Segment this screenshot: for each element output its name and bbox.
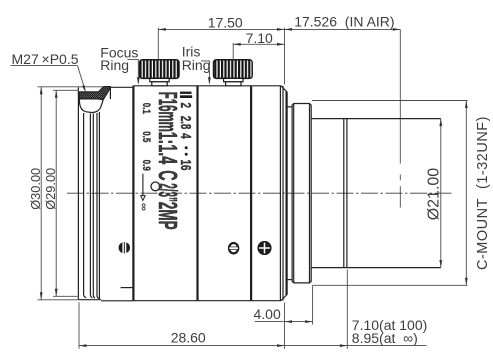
svg-text:Ring: Ring — [182, 57, 211, 73]
svg-text:M27 ×P0.5: M27 ×P0.5 — [12, 51, 79, 67]
svg-text:C-MOUNT (1-32UNF): C-MOUNT (1-32UNF) — [475, 116, 491, 270]
svg-text:2MP: 2MP — [153, 202, 182, 230]
svg-text:C: C — [153, 170, 182, 180]
svg-text:2/3”: 2/3” — [153, 183, 182, 202]
svg-text:Ø21.00: Ø21.00 — [425, 168, 442, 221]
svg-text:Ring: Ring — [100, 57, 129, 73]
svg-text:0.5: 0.5 — [140, 131, 153, 143]
svg-text:0.9: 0.9 — [140, 160, 153, 172]
svg-text:1:1.4: 1:1.4 — [153, 132, 182, 165]
svg-text:4: 4 — [177, 133, 193, 139]
svg-text:16: 16 — [177, 160, 193, 171]
svg-text:2: 2 — [177, 103, 193, 109]
svg-text:∞: ∞ — [138, 203, 150, 211]
svg-text:F16mm: F16mm — [153, 92, 181, 132]
svg-text:28.60: 28.60 — [171, 330, 206, 346]
svg-text:Ø29.00: Ø29.00 — [43, 168, 58, 210]
svg-text:4.00: 4.00 — [254, 306, 281, 322]
svg-text:7.10: 7.10 — [246, 30, 273, 46]
svg-text:17.526 (IN AIR): 17.526 (IN AIR) — [294, 14, 394, 30]
svg-text:8.95(at ∞): 8.95(at ∞) — [352, 330, 418, 346]
svg-text:2.8: 2.8 — [177, 116, 193, 130]
svg-text:17.50: 17.50 — [208, 14, 243, 30]
svg-text:Ø30.00: Ø30.00 — [28, 168, 43, 210]
svg-text:0.1: 0.1 — [140, 103, 153, 115]
